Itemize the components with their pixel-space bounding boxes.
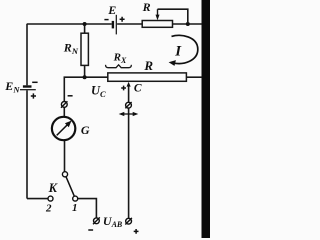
svg-text:E: E bbox=[107, 3, 116, 17]
svg-text:I: I bbox=[174, 43, 182, 59]
svg-text:G: G bbox=[81, 123, 90, 137]
svg-text:1: 1 bbox=[72, 202, 78, 214]
svg-text:2: 2 bbox=[45, 203, 52, 215]
svg-text:R: R bbox=[143, 58, 153, 73]
svg-text:R: R bbox=[142, 0, 151, 14]
svg-text:C: C bbox=[134, 83, 142, 95]
svg-text:K: K bbox=[48, 181, 59, 195]
